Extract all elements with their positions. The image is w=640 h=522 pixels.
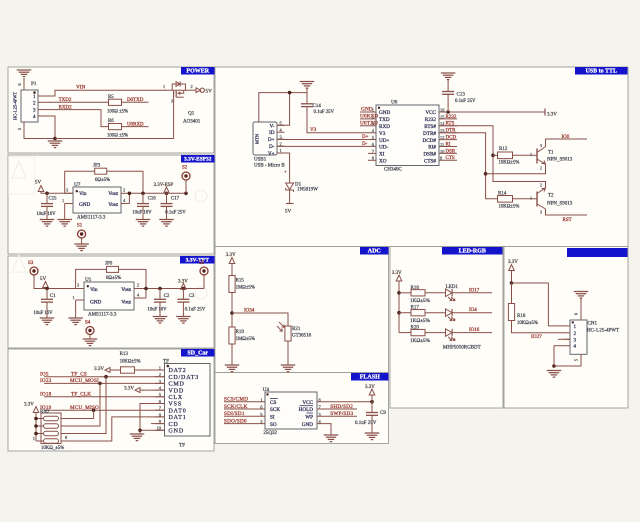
svg-text:SDO/SD0: SDO/SD0 (224, 419, 247, 425)
svg-text:POWER: POWER (186, 69, 209, 75)
svg-text:2: 2 (540, 183, 542, 187)
svg-text:U0RXD: U0RXD (127, 122, 144, 127)
svg-text:3: 3 (540, 144, 542, 148)
svg-text:TF_CS: TF_CS (71, 372, 87, 378)
svg-text:SWP/SD3: SWP/SD3 (330, 411, 353, 417)
svg-text:VDD: VDD (169, 388, 185, 394)
svg-text:GND: GND (361, 107, 373, 113)
svg-text:IO4: IO4 (469, 308, 477, 313)
svg-text:0.1uF 25V: 0.1uF 25V (455, 99, 476, 104)
svg-text:2: 2 (137, 283, 139, 288)
svg-text:C1: C1 (50, 294, 56, 299)
svg-text:RXD: RXD (379, 124, 390, 130)
svg-text:R20: R20 (411, 326, 420, 331)
svg-text:3.3V: 3.3V (508, 260, 518, 265)
svg-text:TXD2: TXD2 (59, 98, 72, 103)
svg-text:GND: GND (302, 422, 313, 428)
svg-text:0Ω±5%: 0Ω±5% (106, 276, 121, 281)
svg-text:FLASH: FLASH (360, 375, 380, 381)
svg-text:CTS: CTS (446, 156, 455, 161)
svg-text:1: 1 (73, 295, 75, 300)
svg-text:R15: R15 (236, 279, 245, 284)
svg-text:TXD: TXD (379, 117, 390, 123)
svg-text:D-: D- (362, 142, 368, 147)
svg-text:RI: RI (446, 142, 451, 147)
svg-text:0.1uF 25V: 0.1uF 25V (165, 210, 186, 215)
svg-text:S5: S5 (199, 261, 205, 266)
svg-text:10uF 16V: 10uF 16V (36, 212, 56, 217)
svg-text:CLX: CLX (169, 395, 184, 401)
svg-text:Vout: Vout (108, 191, 118, 197)
svg-text:2: 2 (191, 84, 193, 89)
svg-text:C17: C17 (171, 196, 180, 201)
svg-text:CD: CD (169, 422, 179, 428)
svg-text:R14: R14 (498, 191, 507, 196)
svg-text:C2: C2 (164, 294, 170, 299)
svg-text:1MΩ±5%: 1MΩ±5% (236, 286, 255, 291)
svg-text:5V: 5V (285, 210, 292, 215)
svg-text:D-: D- (269, 144, 275, 150)
svg-text:1: 1 (530, 196, 532, 201)
svg-text:1: 1 (62, 198, 64, 203)
svg-text:2: 2 (280, 141, 282, 146)
svg-text:U7: U7 (74, 182, 81, 188)
svg-text:R21: R21 (292, 327, 301, 332)
svg-text:0Ω±5%: 0Ω±5% (95, 178, 110, 183)
svg-text:3.3V-TFT: 3.3V-TFT (186, 258, 210, 264)
svg-text:WP: WP (305, 415, 313, 421)
svg-text:C3: C3 (189, 294, 195, 299)
svg-text:RXD2: RXD2 (59, 105, 73, 110)
svg-text:DCD#: DCD# (422, 138, 436, 144)
svg-text:3.3V: 3.3V (547, 113, 557, 118)
svg-text:SO: SO (270, 422, 277, 428)
svg-text:1: 1 (280, 148, 282, 153)
svg-text:C16: C16 (148, 196, 157, 201)
svg-text:AMS1117-3.3: AMS1117-3.3 (88, 312, 117, 317)
svg-text:CTS#: CTS# (424, 159, 437, 165)
svg-text:T1: T1 (548, 150, 554, 155)
svg-text:GT36516: GT36516 (292, 334, 312, 339)
svg-text:DAT0: DAT0 (169, 408, 187, 414)
svg-text:ADC: ADC (368, 249, 381, 255)
svg-text:R5: R5 (108, 95, 114, 100)
svg-text:100Ω ±5%: 100Ω ±5% (107, 134, 128, 139)
svg-text:IO17: IO17 (469, 288, 480, 293)
svg-text:5V: 5V (35, 181, 42, 186)
svg-text:Q1: Q1 (188, 111, 195, 117)
svg-text:25Q32: 25Q32 (263, 431, 277, 436)
svg-text:RTS#: RTS# (424, 124, 436, 130)
svg-text:NPN_S9013: NPN_S9013 (547, 158, 573, 163)
svg-text:V3: V3 (379, 131, 386, 137)
svg-text:HOLD: HOLD (299, 407, 314, 413)
svg-text:V-: V- (270, 123, 275, 129)
svg-text:U1: U1 (85, 277, 92, 283)
svg-text:3.3V: 3.3V (392, 271, 402, 276)
svg-text:Vin: Vin (79, 191, 87, 197)
svg-text:1KΩ±5%: 1KΩ±5% (410, 318, 431, 324)
svg-text:IO27: IO27 (531, 334, 542, 340)
svg-text:DAT2: DAT2 (169, 368, 187, 374)
svg-text:IO16: IO16 (469, 328, 480, 333)
svg-text:RST: RST (563, 218, 572, 223)
svg-text:IO18: IO18 (40, 392, 52, 398)
svg-text:IO0: IO0 (562, 135, 570, 140)
svg-text:1: 1 (530, 152, 532, 157)
svg-text:TF: TF (163, 359, 169, 365)
svg-text:0.1uF 25V: 0.1uF 25V (314, 110, 335, 115)
svg-text:2: 2 (540, 167, 542, 171)
svg-text:SHD/SD2: SHD/SD2 (330, 404, 353, 410)
svg-text:DCD: DCD (446, 136, 457, 141)
svg-text:CMD: CMD (169, 382, 185, 388)
svg-text:CH340C: CH340C (384, 168, 402, 173)
svg-text:3.3V-ESP: 3.3V-ESP (154, 183, 174, 188)
svg-text:5V: 5V (206, 89, 213, 95)
svg-text:R6: R6 (108, 119, 114, 124)
svg-text:3.3V: 3.3V (24, 403, 34, 408)
svg-text:CS: CS (270, 400, 276, 406)
svg-text:DAT1: DAT1 (169, 415, 187, 421)
svg-text:NPN_S9013: NPN_S9013 (547, 201, 573, 206)
svg-text:R19: R19 (236, 330, 245, 335)
svg-text:SD_Car: SD_Car (187, 351, 208, 357)
svg-text:3: 3 (171, 99, 173, 104)
svg-text:Vout: Vout (121, 287, 131, 293)
svg-text:VIN: VIN (76, 85, 85, 91)
svg-text:UD-: UD- (379, 145, 388, 151)
svg-text:T2: T2 (548, 193, 554, 198)
svg-text:MCU_MOSI: MCU_MOSI (70, 378, 99, 384)
svg-text:R17: R17 (411, 306, 420, 311)
svg-text:10KΩ±5%: 10KΩ±5% (120, 360, 141, 365)
svg-text:1N5819W: 1N5819W (297, 188, 318, 193)
svg-text:0.1uF 25V: 0.1uF 25V (355, 421, 377, 426)
svg-text:R13: R13 (120, 352, 129, 357)
svg-text:MTN: MTN (255, 133, 260, 144)
svg-text:U0RXD: U0RXD (360, 113, 378, 119)
svg-text:V+: V+ (268, 151, 275, 157)
svg-text:JP0: JP0 (105, 262, 113, 267)
svg-text:AMS1117-3.3: AMS1117-3.3 (77, 215, 106, 220)
svg-text:ID: ID (269, 130, 275, 136)
svg-text:AO3401: AO3401 (183, 120, 201, 125)
svg-text:10uF 16V: 10uF 16V (147, 308, 167, 313)
svg-text:1KΩ±5%: 1KΩ±5% (410, 338, 431, 344)
svg-text:1KΩ±5%: 1KΩ±5% (410, 298, 431, 304)
svg-text:1: 1 (33, 436, 35, 441)
svg-text:LED-RGB: LED-RGB (459, 249, 486, 255)
svg-text:VSS: VSS (169, 402, 183, 408)
svg-text:IO5: IO5 (40, 372, 49, 378)
svg-text:DTR#: DTR# (423, 131, 436, 137)
svg-text:U6: U6 (391, 100, 398, 106)
svg-text:GND: GND (169, 429, 185, 435)
svg-text:C14: C14 (313, 104, 322, 109)
svg-text:0.1uF 25V: 0.1uF 25V (185, 308, 206, 313)
svg-text:V3: V3 (310, 128, 317, 133)
svg-text:LED1: LED1 (446, 285, 459, 290)
svg-text:1MΩ±5%: 1MΩ±5% (236, 337, 255, 342)
svg-text:SDI/SD1: SDI/SD1 (224, 411, 245, 417)
svg-text:SCS/CMD: SCS/CMD (224, 397, 248, 403)
svg-text:R232: R232 (425, 117, 437, 123)
svg-text:Vin: Vin (90, 287, 98, 293)
svg-text:S3: S3 (28, 261, 34, 266)
svg-text:U4: U4 (263, 387, 270, 393)
svg-text:R232: R232 (446, 115, 457, 120)
svg-text:JP3: JP3 (93, 164, 101, 169)
svg-text:Vout: Vout (121, 299, 131, 305)
svg-text:R12: R12 (499, 147, 508, 152)
svg-text:U0TXD: U0TXD (360, 120, 378, 126)
svg-text:C9: C9 (380, 411, 386, 416)
svg-text:USB - Micro B: USB - Micro B (254, 164, 285, 169)
svg-text:S1: S1 (77, 224, 83, 229)
svg-text:10KΩ_±5%: 10KΩ_±5% (41, 446, 64, 451)
svg-text:SCK/CLK: SCK/CLK (224, 404, 248, 410)
svg-text:XI: XI (379, 152, 385, 158)
svg-text:GND: GND (379, 110, 390, 116)
svg-text:RI#: RI# (428, 145, 436, 151)
svg-text:10KΩ±5%: 10KΩ±5% (499, 205, 520, 210)
svg-text:TF_CLK: TF_CLK (71, 392, 91, 398)
svg-text:P1: P1 (31, 81, 37, 87)
svg-text:1: 1 (163, 84, 165, 89)
svg-text:D+: D+ (362, 135, 369, 140)
svg-text:10uF 16V: 10uF 16V (33, 311, 53, 316)
svg-text:R16: R16 (411, 286, 420, 291)
svg-text:HC-1.25-4PWT: HC-1.25-4PWT (13, 92, 18, 120)
svg-text:S4: S4 (85, 321, 91, 326)
svg-text:3.3V: 3.3V (124, 387, 134, 392)
svg-text:VCC: VCC (425, 110, 436, 116)
svg-text:GND: GND (79, 202, 90, 208)
svg-text:DSR#: DSR# (423, 152, 436, 158)
svg-text:C15: C15 (49, 196, 58, 201)
svg-text:3: 3 (540, 210, 542, 214)
svg-text:XO: XO (379, 159, 387, 165)
svg-text:10uF 16V: 10uF 16V (132, 210, 152, 215)
svg-text:USB to TTL: USB to TTL (585, 69, 617, 75)
svg-text:RN2: RN2 (40, 410, 50, 415)
svg-text:3.3V: 3.3V (226, 253, 236, 258)
svg-text:USB1: USB1 (254, 158, 267, 163)
svg-text:Vout: Vout (108, 202, 118, 208)
svg-text:VCC: VCC (302, 400, 313, 406)
svg-text:CN1: CN1 (588, 322, 598, 327)
svg-text:D0TXD: D0TXD (127, 98, 144, 103)
svg-text:100Ω ±5%: 100Ω ±5% (107, 110, 128, 115)
svg-text:IO34: IO34 (244, 309, 255, 314)
svg-text:GND: GND (90, 299, 101, 305)
svg-text:2: 2 (123, 188, 125, 193)
svg-text:IO23: IO23 (40, 378, 52, 384)
svg-text:MHP5050RGBDT: MHP5050RGBDT (443, 346, 481, 351)
svg-text:D+: D+ (268, 137, 275, 143)
svg-text:3.3V: 3.3V (94, 367, 104, 372)
svg-text:3.3V-ESP32: 3.3V-ESP32 (184, 157, 212, 163)
svg-text:UD+: UD+ (379, 138, 389, 144)
svg-text:TF: TF (179, 443, 185, 449)
svg-text:HC-1.25-4PWT: HC-1.25-4PWT (587, 329, 619, 334)
svg-text:DSR: DSR (446, 149, 456, 154)
svg-text:10KΩ±5%: 10KΩ±5% (517, 321, 538, 326)
svg-text:+: + (284, 171, 287, 176)
svg-text:10KΩ±5%: 10KΩ±5% (499, 161, 520, 166)
svg-text:R18: R18 (517, 314, 526, 319)
svg-text:SCK: SCK (270, 407, 280, 413)
svg-text:3.3V: 3.3V (365, 385, 375, 390)
svg-text:S2: S2 (182, 166, 188, 171)
svg-text:CD/DAT3: CD/DAT3 (169, 375, 200, 381)
svg-text:C13: C13 (457, 93, 466, 98)
svg-text:SI: SI (270, 415, 275, 421)
